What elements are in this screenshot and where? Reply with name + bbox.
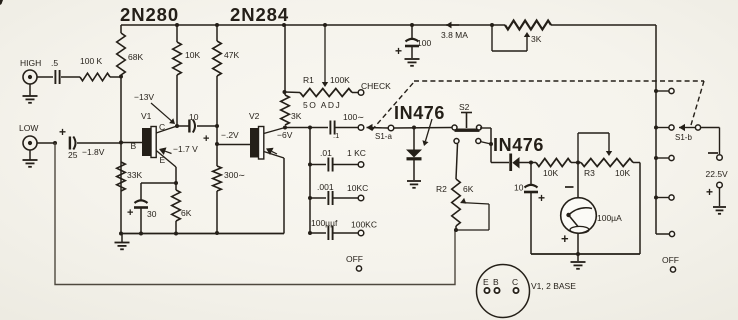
svg-text:47K: 47K bbox=[224, 50, 239, 60]
svg-text:C: C bbox=[159, 122, 165, 132]
svg-text:R1: R1 bbox=[303, 75, 314, 85]
svg-text:E: E bbox=[483, 277, 489, 287]
svg-text:+: + bbox=[203, 133, 209, 145]
svg-text:25: 25 bbox=[68, 150, 78, 160]
svg-text:S2: S2 bbox=[459, 102, 470, 112]
svg-text:−1.7 V: −1.7 V bbox=[173, 144, 198, 154]
svg-text:.001: .001 bbox=[317, 182, 334, 192]
svg-text:3K: 3K bbox=[531, 34, 542, 44]
svg-text:R2: R2 bbox=[436, 184, 447, 194]
svg-text:+: + bbox=[561, 231, 569, 246]
svg-text:−6V: −6V bbox=[277, 130, 293, 140]
svg-text:+: + bbox=[59, 125, 66, 139]
svg-text:+: + bbox=[706, 185, 713, 199]
svg-text:C: C bbox=[512, 277, 518, 287]
svg-text:30: 30 bbox=[147, 209, 157, 219]
svg-text:3.8 MA: 3.8 MA bbox=[441, 30, 468, 40]
svg-text:10K: 10K bbox=[543, 168, 558, 178]
svg-text:5O ADJ: 5O ADJ bbox=[303, 100, 341, 110]
svg-text:100K: 100K bbox=[330, 75, 350, 85]
svg-text:IN476: IN476 bbox=[493, 135, 544, 155]
svg-text:10K: 10K bbox=[615, 168, 630, 178]
svg-text:OFF: OFF bbox=[662, 255, 679, 265]
svg-text:68K: 68K bbox=[128, 52, 143, 62]
svg-text:1 KC: 1 KC bbox=[347, 148, 366, 158]
svg-text:100 K: 100 K bbox=[80, 56, 103, 66]
svg-text:2N280: 2N280 bbox=[120, 4, 179, 25]
svg-text:−13V: −13V bbox=[134, 92, 154, 102]
svg-text:IN476: IN476 bbox=[394, 103, 445, 123]
svg-text:100∼: 100∼ bbox=[343, 112, 364, 122]
svg-text:+: + bbox=[395, 44, 402, 58]
svg-text:10K: 10K bbox=[185, 50, 200, 60]
svg-text:OFF: OFF bbox=[346, 254, 363, 264]
svg-text:B: B bbox=[493, 277, 499, 287]
svg-text:.01: .01 bbox=[320, 148, 332, 158]
svg-text:+: + bbox=[127, 207, 133, 219]
svg-text:V1, 2 BASE: V1, 2 BASE bbox=[531, 281, 576, 291]
svg-text:2N284: 2N284 bbox=[230, 4, 289, 25]
svg-text:+: + bbox=[538, 191, 545, 205]
svg-text:.1: .1 bbox=[333, 131, 339, 140]
svg-text:22.5V: 22.5V bbox=[706, 169, 729, 179]
svg-text:E: E bbox=[160, 155, 166, 165]
svg-text:S1-b: S1-b bbox=[675, 133, 692, 142]
svg-text:100KC: 100KC bbox=[351, 220, 377, 230]
svg-text:10KC: 10KC bbox=[347, 183, 368, 193]
svg-text:6K: 6K bbox=[463, 184, 474, 194]
svg-text:10: 10 bbox=[514, 183, 524, 193]
svg-text:.5: .5 bbox=[51, 58, 58, 68]
svg-text:S1-a: S1-a bbox=[375, 132, 392, 141]
svg-text:V1: V1 bbox=[141, 111, 152, 121]
svg-text:3K: 3K bbox=[291, 111, 302, 121]
svg-text:R3: R3 bbox=[584, 168, 595, 178]
svg-text:100µµf: 100µµf bbox=[311, 218, 338, 228]
svg-text:6K: 6K bbox=[181, 208, 192, 218]
svg-text:LOW: LOW bbox=[19, 123, 38, 133]
svg-text:−.2V: −.2V bbox=[221, 130, 239, 140]
svg-text:300∼: 300∼ bbox=[224, 170, 245, 180]
svg-text:CHECK: CHECK bbox=[361, 81, 391, 91]
svg-text:−1.8V: −1.8V bbox=[82, 147, 105, 157]
svg-text:HIGH: HIGH bbox=[20, 58, 41, 68]
svg-text:33K: 33K bbox=[127, 170, 142, 180]
svg-text:B: B bbox=[131, 141, 137, 151]
svg-text:V2: V2 bbox=[249, 111, 260, 121]
svg-text:10: 10 bbox=[189, 112, 199, 122]
svg-text:100: 100 bbox=[417, 38, 431, 48]
svg-text:100µA: 100µA bbox=[597, 213, 622, 223]
